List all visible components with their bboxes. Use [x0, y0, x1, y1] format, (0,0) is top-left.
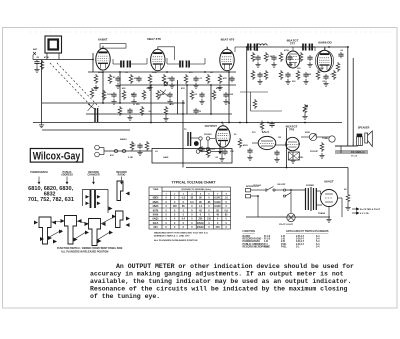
svg-text:of the tuning eye.: of the tuning eye.: [90, 293, 160, 300]
svg-text:20: 20: [234, 134, 237, 136]
svg-text:6AL5: 6AL5: [262, 130, 270, 134]
svg-text:RADIO: RADIO: [118, 173, 126, 176]
svg-text:RADIO: RADIO: [120, 138, 127, 141]
svg-text:-6.5: -6.5: [181, 198, 186, 200]
svg-text:P.M. SPKR 6-8: P.M. SPKR 6-8: [351, 152, 365, 154]
svg-text:4: 4: [191, 192, 193, 195]
svg-text:.05: .05: [36, 57, 40, 59]
svg-text:6AV6: 6AV6: [153, 214, 159, 217]
svg-text:6BA7 6T6: 6BA7 6T6: [147, 37, 161, 41]
svg-text:6AL5: 6AL5: [153, 222, 159, 225]
svg-text:455: 455: [122, 87, 126, 90]
svg-text:6.3 V FIL.: 6.3 V FIL.: [360, 213, 370, 215]
svg-text:47K: 47K: [110, 154, 114, 157]
svg-text:47K: 47K: [223, 77, 227, 80]
svg-text:6BA6: 6BA6: [153, 205, 160, 208]
svg-text:PHONO: PHONO: [204, 134, 212, 136]
svg-text:47K: 47K: [181, 87, 185, 90]
svg-text:.01: .01: [125, 72, 129, 74]
svg-text:ALL PLUNGERS IN RELEASED POSIT: ALL PLUNGERS IN RELEASED POSITION: [61, 250, 109, 253]
svg-text:POWER: POWER: [306, 185, 314, 187]
svg-text:6.3AC: 6.3AC: [214, 201, 221, 204]
svg-text:450V: 450V: [243, 144, 248, 147]
svg-text:OUTPUT: OUTPUT: [205, 124, 218, 128]
svg-text:ALL PLUNGERS IN RELEASED POSIT: ALL PLUNGERS IN RELEASED POSITION: [154, 239, 198, 242]
svg-text:An OUTPUT METER or other indic: An OUTPUT METER or other indication devi…: [116, 263, 354, 270]
svg-text:P-1: P-1: [264, 245, 268, 248]
svg-text:100K: 100K: [152, 72, 157, 74]
svg-text:PICKUP: PICKUP: [310, 151, 318, 153]
svg-text:GAIN: GAIN: [163, 156, 169, 159]
svg-text:500K: 500K: [305, 132, 310, 134]
svg-text:P-BL: P-BL: [281, 245, 287, 248]
svg-text:12K: 12K: [230, 151, 234, 153]
svg-text:6AW6 DD: 6AW6 DD: [318, 40, 332, 44]
svg-text:1M: 1M: [278, 137, 281, 139]
svg-text:.05: .05: [340, 50, 344, 52]
svg-text:PILOT LIGHT: PILOT LIGHT: [279, 224, 293, 226]
svg-text:470K: 470K: [44, 56, 49, 59]
svg-text:6.3AC: 6.3AC: [214, 197, 221, 200]
svg-text:FUNCTION: FUNCTION: [243, 230, 256, 233]
svg-text:PHONOGRAPH: PHONOGRAPH: [30, 171, 48, 174]
svg-text:245AC: 245AC: [197, 226, 204, 229]
svg-text:6BA6: 6BA6: [153, 201, 160, 204]
svg-text:220: 220: [292, 81, 296, 83]
svg-text:6BA7 6T6: 6BA7 6T6: [221, 37, 235, 41]
svg-text:.02: .02: [322, 81, 326, 83]
svg-text:6X4GT: 6X4GT: [324, 180, 334, 184]
svg-text:ANTI-CAPACITY SWITCH PLUNGERS: ANTI-CAPACITY SWITCH PLUNGERS: [286, 230, 329, 233]
svg-text:245AC: 245AC: [197, 222, 204, 225]
svg-text:TRANS: TRANS: [318, 212, 326, 215]
svg-text:701, 752, 782, 631: 701, 752, 782, 631: [28, 197, 74, 203]
svg-text:100: 100: [297, 68, 301, 70]
svg-text:250: 250: [136, 104, 140, 106]
svg-text:42: 42: [199, 209, 202, 212]
svg-text:Wilcox-Gay: Wilcox-Gay: [33, 150, 81, 162]
svg-text:ADDRESS: ADDRESS: [61, 173, 73, 176]
svg-text:XTAL: XTAL: [298, 156, 304, 159]
svg-text:270: 270: [252, 132, 256, 134]
svg-text:LO: LO: [155, 151, 158, 153]
svg-text:6BE6: 6BE6: [153, 198, 159, 200]
svg-text:7F7: 7F7: [290, 42, 296, 46]
svg-text:accuracy in making ganging adj: accuracy in making ganging adjustments. …: [90, 271, 344, 278]
svg-text:.05: .05: [215, 157, 219, 159]
svg-text:TONE: TONE: [322, 138, 328, 140]
svg-text:1M: 1M: [210, 72, 213, 74]
svg-text:6AT6: 6AT6: [153, 209, 159, 212]
svg-text:10K: 10K: [320, 68, 324, 70]
svg-text:T2: T2: [184, 129, 187, 131]
svg-text:5.4: 5.4: [182, 218, 186, 221]
svg-text:6X4: 6X4: [153, 226, 158, 229]
svg-text:TYPICAL VOLTAGE CHART: TYPICAL VOLTAGE CHART: [171, 180, 216, 184]
svg-text:6.3AC: 6.3AC: [214, 205, 221, 208]
svg-text:6AQ5: 6AQ5: [152, 218, 159, 221]
svg-text:Resonance of the circuits will: Resonance of the circuits will be indica…: [90, 286, 348, 293]
svg-text:2-L: 2-L: [296, 245, 300, 248]
svg-text:VC 3.2: VC 3.2: [351, 156, 358, 158]
svg-text:.005: .005: [229, 94, 234, 96]
svg-text:AVERAGE CHART A. C. LINE 117V: AVERAGE CHART A. C. LINE 117V: [154, 235, 190, 238]
svg-text:.01: .01: [199, 78, 203, 80]
svg-text:CHANGER: CHANGER: [87, 173, 99, 176]
svg-text:2K: 2K: [344, 189, 347, 191]
svg-text:SPEAKER: SPEAKER: [358, 127, 370, 130]
svg-text:ANT: ANT: [33, 48, 38, 51]
svg-text:TUBE: TUBE: [153, 189, 159, 191]
svg-text:45: 45: [216, 214, 219, 217]
svg-text:VOLTAGE TO GROUND (Volts): VOLTAGE TO GROUND (Volts): [181, 188, 211, 191]
svg-text:6AB6T: 6AB6T: [98, 37, 108, 41]
svg-text:470K: 470K: [284, 49, 289, 52]
svg-text:MEASURED WITH VTVM USING MIN.: MEASURED WITH VTVM USING MIN. VOLT SET S…: [154, 232, 209, 235]
svg-text:available, the tuning indicato: available, the tuning indicator may be u…: [90, 278, 351, 285]
svg-text:2.2M: 2.2M: [128, 157, 133, 159]
svg-text:117V AC: 117V AC: [253, 184, 262, 187]
svg-text:3-4: 3-4: [316, 245, 320, 248]
svg-text:B+ FILTER & PILOT: B+ FILTER & PILOT: [360, 209, 381, 211]
svg-text:7F6: 7F6: [289, 127, 295, 131]
svg-text:ON-OFF: ON-OFF: [277, 184, 286, 186]
